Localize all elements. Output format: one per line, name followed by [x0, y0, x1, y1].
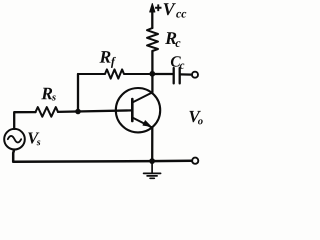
wire emitter to ground node	[151, 127, 153, 161]
node ground junction	[149, 158, 155, 164]
wire Rc bottom to collector	[151, 51, 153, 93]
resistor Rc	[147, 28, 158, 51]
output terminal top	[192, 72, 198, 78]
wire Rs to transistor base	[58, 110, 132, 112]
transistor Q1	[116, 88, 160, 132]
label Rf	[100, 51, 116, 68]
node base junction	[75, 109, 81, 115]
wire node to capacitor	[152, 73, 172, 75]
resistor Rs	[36, 107, 59, 117]
wire Vs down to bottom rail	[13, 150, 192, 162]
power +Vcc terminal arrow	[150, 4, 155, 29]
ground	[144, 161, 161, 178]
wire Rf branch down to base wire	[77, 74, 79, 112]
output terminal bottom	[192, 158, 198, 164]
label Rs	[41, 88, 55, 101]
resistor Rf	[78, 69, 152, 78]
wire capacitor to output terminal	[181, 73, 192, 75]
label Rc	[165, 32, 180, 47]
label +Vcc	[155, 3, 186, 17]
label Vo	[189, 111, 202, 125]
label Cc	[171, 56, 184, 69]
wire Vs up to Rs	[14, 112, 35, 129]
node collector junction	[149, 71, 155, 77]
source Vs	[4, 129, 25, 150]
label Vs	[28, 133, 40, 146]
capacitor Cc	[174, 68, 180, 83]
